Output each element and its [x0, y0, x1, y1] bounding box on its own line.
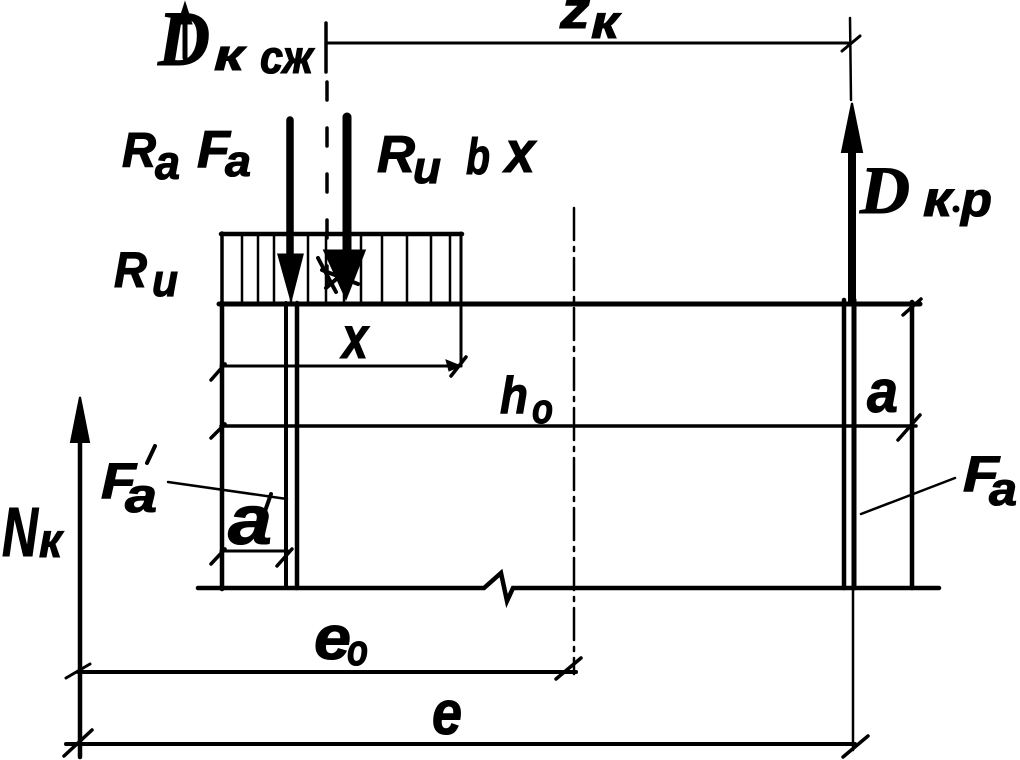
z_k left end tick	[324, 23, 328, 72]
svg-text:x: x	[502, 120, 537, 185]
svg-text:R: R	[122, 124, 157, 178]
svg-text:р: р	[959, 174, 992, 227]
svg-text:к: к	[923, 171, 955, 227]
leader line F_a	[861, 478, 955, 514]
label D_k.r	[859, 152, 992, 228]
svg-text:u: u	[152, 255, 178, 306]
force arrow D_k.r (up, at right)	[848, 150, 856, 302]
bottom edge with break symbol	[198, 573, 939, 601]
z_k right end tick	[850, 18, 851, 100]
h_o / a right arrow tick	[898, 415, 920, 440]
a' right tick	[277, 549, 292, 566]
dimension line z_k	[326, 42, 848, 45]
hatch lines	[242, 236, 450, 303]
svg-text:a: a	[155, 137, 180, 190]
arrow of D_k.szh (up arrow through letter D)	[183, 14, 188, 58]
svg-text:R: R	[377, 126, 415, 184]
e left arrow tick	[64, 730, 92, 756]
label e	[432, 679, 462, 748]
label a'	[228, 481, 272, 559]
svg-text:z: z	[559, 0, 591, 40]
dimension line e_0	[78, 670, 576, 674]
e_0 right arrow tick	[556, 658, 581, 679]
reinforcement bar F_a (right double line)	[842, 300, 847, 588]
label h_o	[500, 367, 553, 432]
svg-text:o: o	[347, 626, 368, 675]
svg-text:R: R	[114, 242, 147, 298]
force arrow R_u b x (right, down)	[343, 117, 352, 254]
svg-text:e: e	[314, 604, 351, 673]
label z_k	[559, 0, 622, 48]
h_o left tick	[211, 424, 225, 438]
label x	[340, 305, 370, 371]
dashed axis line of compression resultant	[325, 82, 329, 312]
e_0 left arrow tick	[66, 664, 90, 678]
apostrophe of F_a'	[147, 446, 155, 463]
svg-text:a: a	[989, 463, 1017, 515]
label R_u (stress ordinate)	[114, 242, 178, 306]
svg-text:к: к	[39, 515, 65, 568]
svg-text:к: к	[214, 31, 248, 80]
reinforcement bar F_a' (left double line)	[284, 303, 288, 588]
svg-text:N: N	[2, 493, 39, 571]
label e_0	[314, 604, 368, 675]
dimension line h_o	[221, 424, 916, 428]
label D_k.szh	[157, 0, 315, 83]
label a	[867, 358, 898, 425]
force arrow N_k (up)	[78, 430, 83, 757]
x right arrow tick	[451, 357, 466, 376]
svg-text:к: к	[591, 0, 622, 48]
left edge	[220, 303, 225, 589]
beam section rectangle: top edge	[219, 302, 920, 307]
svg-text:a: a	[867, 358, 898, 425]
x left tick	[211, 364, 225, 380]
dimension line e	[66, 742, 855, 746]
dimension a top tick	[903, 299, 921, 315]
svg-text:x: x	[340, 305, 370, 371]
svg-text:b: b	[466, 128, 490, 185]
svg-text:o: o	[532, 385, 553, 432]
label R_a F_a	[122, 121, 251, 190]
right edge (also dimension line a)	[910, 302, 915, 588]
e right arrow tick	[843, 736, 868, 757]
extension line from F_a bar down to e dimension	[852, 589, 855, 750]
dimension line a'	[221, 550, 288, 553]
svg-text:u: u	[413, 142, 441, 193]
apostrophe of a'	[264, 494, 271, 514]
label R_u b x	[377, 120, 538, 193]
svg-text:a: a	[125, 470, 157, 523]
centre dash-dot axis	[573, 208, 576, 674]
label F_a' with leader	[101, 453, 157, 523]
label N_k	[2, 493, 65, 571]
label F_a (right) with leader	[963, 446, 1017, 515]
svg-text:e: e	[432, 679, 462, 748]
svg-text:h: h	[500, 367, 528, 425]
svg-text:сж: сж	[260, 31, 315, 83]
svg-text:D: D	[157, 0, 210, 82]
hatched compression stress block	[221, 232, 462, 237]
force arrow R_a F_a (left, down)	[286, 120, 294, 260]
svg-text:D: D	[859, 152, 910, 228]
dimension line x	[221, 365, 461, 368]
leader line F_a'	[168, 482, 287, 499]
svg-text:a: a	[225, 137, 251, 186]
a' left tick	[211, 549, 225, 564]
